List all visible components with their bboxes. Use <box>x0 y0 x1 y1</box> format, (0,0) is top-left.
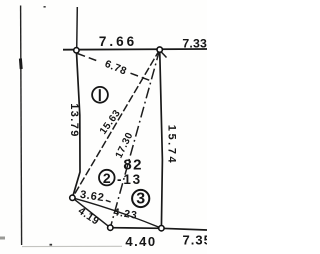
node E <box>159 226 164 231</box>
wire bottom boundary D-E and onward <box>110 228 207 230</box>
parcel marker 3 <box>132 190 149 208</box>
wire vertical extension above node A <box>76 7 79 50</box>
left border tick <box>0 237 5 240</box>
node D <box>108 225 113 230</box>
svg-text:7.35: 7.35 <box>183 233 208 248</box>
node C <box>70 195 75 200</box>
wire dashed tie line A (6.78) <box>78 54 100 62</box>
svg-text:15.74: 15.74 <box>166 125 178 166</box>
wire lot division C-E (3.62/4.23) <box>72 198 161 228</box>
faint fold line bottom <box>22 245 122 247</box>
svg-text:-13: -13 <box>117 172 142 187</box>
paper background <box>0 0 207 254</box>
svg-text:7.33: 7.33 <box>182 37 207 51</box>
svg-text:2: 2 <box>103 170 111 186</box>
wire dashed tie line B-C (15.63) <box>72 50 159 198</box>
wire right lot edge B-E (15.74) <box>160 50 163 229</box>
road line ink blob <box>19 59 23 70</box>
node A <box>74 48 79 53</box>
svg-text:7.66: 7.66 <box>99 34 137 49</box>
speck top <box>44 6 46 8</box>
svg-text:13.79: 13.79 <box>68 103 80 138</box>
parcel marker 1 <box>92 87 108 103</box>
tick bottom left <box>50 244 53 246</box>
node B <box>157 47 162 52</box>
road line (left street boundary) <box>21 6 22 246</box>
svg-text:3: 3 <box>136 191 145 208</box>
parcel marker 2 <box>99 170 115 186</box>
wire top boundary line <box>63 48 207 51</box>
wire lot edge C-D (4.19) <box>72 198 110 228</box>
wire left lot edge A-C (13.79) <box>72 50 80 198</box>
wire dash-dot tie line B-D (17.30) <box>110 50 159 228</box>
stray dash after 3.62 <box>106 200 111 202</box>
wire stub at node B <box>161 52 166 58</box>
svg-text:4.40: 4.40 <box>125 234 156 249</box>
